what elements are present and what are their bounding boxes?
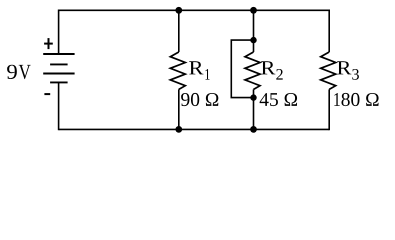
wire: R2 branch lower segment (lower junction to bottom rail) — [253, 89, 255, 129]
node: junction R2 lower (bracket tap) — [250, 94, 256, 100]
node: junction R2 / top rail — [250, 7, 257, 14]
resistor R3 — [321, 52, 336, 89]
label: 180 ohms — [334, 93, 378, 106]
wire: R1 bottom lead — [178, 89, 180, 129]
label: R3 — [337, 61, 351, 74]
wire: top rail from battery + to R3 branch — [59, 9, 330, 11]
battery polarity label + — [44, 38, 53, 49]
label: 45 ohms — [260, 93, 297, 106]
label: 9 V — [7, 65, 17, 79]
wire: parallel loop bracket left of R2 — [231, 40, 253, 98]
resistor R2 — [245, 52, 260, 89]
wire: battery positive lead (left edge, top) — [58, 10, 60, 55]
wire: battery negative lead (left edge, bottom) — [58, 82, 60, 130]
node: junction R2 upper (bracket tap) — [250, 37, 256, 43]
node: junction R1 / top rail — [175, 7, 182, 14]
wire: R3 top lead (right edge) — [328, 10, 330, 53]
label: R1 — [189, 61, 203, 74]
wire: R1 top lead — [178, 10, 180, 52]
wire: R2 branch upper segment (top rail to upper junction) — [253, 10, 255, 52]
wire: bottom rail from battery - to R3 branch — [59, 128, 330, 130]
node: junction R2 / bottom rail — [250, 126, 257, 133]
wire: R3 bottom lead (right edge) — [328, 89, 330, 130]
node: junction R1 / bottom rail — [175, 126, 182, 133]
label: R2 — [261, 61, 275, 74]
label: 90 ohms — [181, 93, 218, 106]
resistor R1 — [170, 52, 185, 89]
battery B1 (9 V source) — [43, 54, 74, 82]
battery polarity label - — [44, 93, 50, 95]
